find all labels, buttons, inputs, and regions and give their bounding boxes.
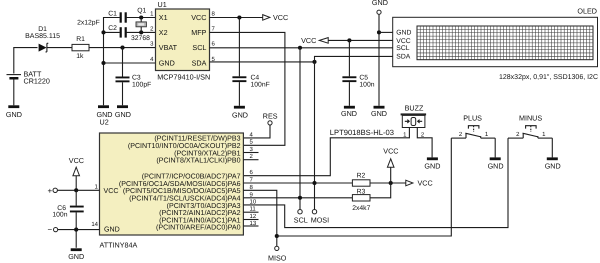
svg-text:GND: GND [104, 226, 120, 234]
resistor R3 [352, 195, 370, 201]
svg-text:CR1220: CR1220 [24, 77, 50, 86]
svg-text:(PCINT8/XTAL1/CLKI)PB0: (PCINT8/XTAL1/CLKI)PB0 [156, 157, 240, 165]
svg-text:32768: 32768 [131, 35, 150, 42]
wire RES to PB3 [243, 125, 270, 138]
svg-text:C1: C1 [108, 10, 117, 17]
svg-text:MINUS: MINUS [519, 114, 542, 123]
U2 stub PA2 [243, 211, 258, 213]
svg-text:VCC: VCC [191, 13, 206, 22]
ground PLUS [488, 157, 504, 170]
U1 pin labels left [159, 13, 178, 68]
wire PA5 to MISO riser [243, 190, 276, 246]
VCC arrow right R2 [406, 180, 413, 186]
wire buzzer pin1 to PA7 [243, 128, 409, 176]
svg-text:+: + [47, 186, 52, 195]
svg-text:(PCINT0/AREF/ADC0)PA0: (PCINT0/AREF/ADC0)PA0 [156, 224, 241, 232]
svg-text:GND: GND [115, 110, 131, 119]
wire SCL drop to SCL term [299, 48, 301, 210]
VCC arrow OLED [319, 38, 328, 44]
crystal Q1 [136, 18, 146, 33]
ground OLED rail [371, 106, 387, 118]
svg-text:GND: GND [545, 162, 561, 171]
svg-text:SDA: SDA [396, 54, 410, 61]
svg-text:100n: 100n [52, 212, 67, 219]
OLED module box [393, 17, 598, 66]
wire SCL U1 to OLED [210, 47, 393, 49]
diode D1 [39, 43, 72, 52]
ground U1 crystal rail [97, 105, 113, 119]
svg-text:VCC: VCC [69, 156, 84, 165]
VCC arrow U1 [263, 15, 270, 21]
svg-text:GND: GND [341, 109, 357, 118]
terminal GND top [377, 10, 381, 14]
OLED display grid [417, 26, 593, 60]
battery BATT [7, 75, 22, 106]
svg-text:128x32px, 0,91", SSD1306, I2C: 128x32px, 0,91", SSD1306, I2C [499, 74, 598, 81]
svg-text:SCL: SCL [396, 45, 409, 52]
svg-text:VCC: VCC [383, 147, 398, 156]
svg-text:VCC: VCC [301, 36, 316, 45]
capacitor C3 [116, 48, 130, 106]
svg-text:OLED: OLED [577, 7, 597, 16]
svg-text:100nF: 100nF [251, 81, 270, 88]
wire PA3 to MINUS line [243, 138, 508, 228]
ground battery [6, 105, 22, 119]
node SCL vertical tap [298, 46, 302, 50]
node gnd rail pin4 [101, 61, 105, 65]
svg-text:GND: GND [488, 162, 504, 171]
svg-text:14: 14 [91, 221, 98, 228]
svg-text:1k: 1k [76, 53, 84, 60]
svg-text:ATTINY84A: ATTINY84A [100, 241, 138, 250]
svg-text:R1: R1 [76, 36, 85, 43]
wire bottom PLUS line [277, 138, 452, 236]
wire SDA drop to MOSI [314, 62, 316, 210]
ground buzzer [424, 157, 440, 170]
wire buzzer pin2 to gnd [417, 128, 432, 158]
wire U1 pin4 GND [104, 62, 156, 64]
svg-text:2x4k7: 2x4k7 [352, 205, 370, 212]
node SDA vertical tap [312, 60, 316, 64]
U1 pin labels right [191, 13, 206, 68]
svg-text:U2: U2 [100, 118, 109, 127]
wire plus to pin1 [57, 189, 99, 191]
wire crystal gnd rail [104, 18, 120, 106]
svg-text:GND: GND [396, 30, 411, 37]
svg-text:PLUS: PLUS [463, 114, 482, 123]
capacitor C5 [342, 40, 356, 105]
node C5 tap [347, 38, 351, 42]
capacitor C6 [70, 190, 84, 248]
switch MINUS [508, 126, 552, 158]
capacitor C4 [232, 18, 246, 106]
node OLED gnd tap [377, 30, 381, 34]
svg-text:LPT9018BS-HL-03: LPT9018BS-HL-03 [330, 128, 394, 137]
resistor R1 [72, 44, 89, 50]
VCC symbol R2R3 [387, 159, 394, 168]
wire battery top to diode [14, 48, 38, 74]
svg-text:MCP79410-I/SN: MCP79410-I/SN [157, 72, 210, 81]
wire R1 to U1 VBAT [89, 47, 156, 49]
node R2 R3 VCC [389, 181, 393, 185]
node MISO bottom line [275, 234, 279, 238]
svg-text:R2: R2 [357, 173, 366, 180]
svg-text:GND: GND [372, 0, 388, 7]
wire SDA riser to OLED [315, 56, 393, 62]
node SCL PA4 [298, 196, 302, 200]
OLED pin labels [396, 30, 411, 61]
svg-text:SCL: SCL [192, 43, 206, 52]
U2 stub PA0 [243, 225, 258, 227]
svg-text:MISO: MISO [268, 254, 287, 263]
wire minus to pin14 [58, 229, 100, 231]
svg-text:BUZZ: BUZZ [405, 103, 424, 112]
resistor R2 [352, 180, 370, 186]
svg-text:100pF: 100pF [132, 82, 151, 89]
ground U2 [68, 248, 84, 260]
terminal minus [54, 228, 58, 232]
svg-text:GND: GND [6, 110, 22, 119]
wire gnd to OLED [379, 31, 393, 33]
svg-text:GND: GND [159, 59, 175, 68]
wire OLED gnd rail [378, 14, 380, 106]
terminal MISO [275, 246, 279, 250]
svg-text:2x12pF: 2x12pF [77, 20, 100, 27]
U2 pin labels right [119, 135, 241, 232]
capacitor C2 [120, 27, 156, 37]
terminal SCL [298, 210, 302, 214]
wire C2 left [104, 31, 120, 33]
svg-text:BAS85.115: BAS85.115 [25, 33, 60, 40]
svg-text:GND: GND [371, 109, 387, 118]
transistor U2 ATTINY84A body [100, 133, 244, 235]
U2 pin numbers right [250, 131, 257, 227]
U2 stub PB0 [243, 159, 258, 161]
svg-text:GND: GND [424, 162, 440, 171]
node gnd C6 tap [74, 228, 78, 232]
node VCC C6 tap [74, 188, 78, 192]
wire R3 right up [370, 167, 391, 198]
VCC symbol U2 [73, 167, 80, 190]
wire VCC to OLED [328, 39, 393, 41]
svg-text:R3: R3 [357, 189, 366, 196]
node X1 crystal tap [139, 15, 143, 19]
svg-text:SCL: SCL [294, 216, 308, 225]
wire PA6 row to R2 [243, 182, 352, 184]
node C4 tap [237, 15, 241, 19]
svg-text:SDA: SDA [192, 59, 207, 68]
wire U1 VCC pin8 [210, 17, 263, 19]
switch PLUS [451, 126, 495, 158]
capacitor C1 [120, 12, 156, 22]
wire MFP to PB2 [210, 32, 285, 145]
U2 stub PA1 [243, 219, 258, 221]
ground C5 [341, 106, 357, 118]
wire PA4 row to R3 [243, 197, 352, 199]
wire SDA U1 [210, 61, 315, 63]
node gnd rail C2 [101, 30, 105, 34]
svg-text:GND: GND [232, 110, 248, 119]
node VBAT junction [120, 46, 124, 50]
op-amp U1 MCP79410 body [156, 9, 210, 71]
svg-text:Q1: Q1 [137, 7, 146, 14]
ground C4 [232, 106, 248, 120]
svg-text:VCC: VCC [104, 187, 119, 195]
svg-text:U1: U1 [158, 0, 167, 9]
svg-text:X1: X1 [159, 13, 168, 22]
svg-text:100n: 100n [359, 81, 374, 88]
svg-text:C2: C2 [108, 25, 117, 32]
svg-text:VBAT: VBAT [159, 43, 178, 52]
svg-text:GND: GND [68, 252, 84, 261]
svg-text:VCC: VCC [396, 38, 410, 45]
terminal plus [53, 188, 57, 192]
svg-text:−: − [47, 225, 52, 234]
svg-text:MFP: MFP [191, 28, 206, 37]
buzzer BUZZ body [401, 113, 427, 127]
node SDA PA6 [312, 181, 316, 185]
node X2 crystal tap [139, 30, 143, 34]
wire R2 right to VCC arrow [370, 182, 406, 184]
svg-text:VCC: VCC [418, 179, 433, 188]
terminal MOSI [312, 210, 316, 214]
terminal RES [268, 121, 272, 125]
svg-text:MOSI: MOSI [311, 216, 329, 225]
svg-text:RES: RES [263, 111, 278, 120]
ground MINUS [545, 157, 561, 170]
U1 pin numbers left [150, 10, 154, 63]
U2 stub PB1 [243, 152, 258, 154]
ground C3 [115, 105, 131, 119]
U1 pin numbers right [212, 10, 216, 63]
svg-text:VCC: VCC [273, 13, 288, 22]
svg-text:X2: X2 [159, 28, 168, 37]
